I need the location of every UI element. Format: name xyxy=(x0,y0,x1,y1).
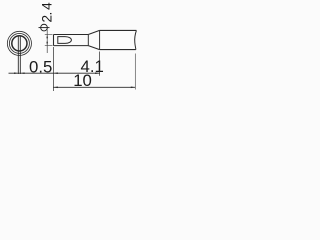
svg-text:10: 10 xyxy=(73,71,92,90)
arrow 10 right xyxy=(131,87,136,89)
arrow 4.1 left xyxy=(53,72,58,74)
side view barrel bottom line xyxy=(100,49,136,51)
side view barrel top line xyxy=(100,29,137,31)
phi 2.4 extension tick top xyxy=(45,34,53,36)
extension line barrel end xyxy=(134,54,136,90)
side view cone/barrel junction xyxy=(99,30,101,49)
side view break line at right xyxy=(135,30,137,49)
svg-text:.: . xyxy=(40,12,55,16)
arrow 10 left xyxy=(53,87,58,89)
tip second circle xyxy=(9,33,29,53)
side view tip edge xyxy=(53,35,55,46)
chisel slot left edge / extension line xyxy=(17,36,19,74)
dimension line 10 xyxy=(53,86,135,88)
side view junction line xyxy=(87,35,89,46)
side view cone top xyxy=(88,30,99,34)
arrow phi2.4 top xyxy=(46,35,48,39)
side view bottom line xyxy=(54,45,89,47)
tip outer circle (front view barrel) xyxy=(7,31,31,55)
side view top line xyxy=(54,34,89,36)
arrow phi2.4 bottom xyxy=(46,42,48,46)
side view cone bottom xyxy=(88,46,99,50)
arrow 0.5 right xyxy=(20,72,24,74)
svg-text:0.5: 0.5 xyxy=(29,58,52,77)
extension line left (tip) xyxy=(52,47,54,91)
phi 2.4 dimension line xyxy=(46,30,48,54)
dimension line 0.5 + 4.1 (continuous) xyxy=(9,72,100,74)
chisel slot right edge / extension line xyxy=(19,36,21,74)
tip inner plated circle xyxy=(12,36,27,51)
svg-text:4: 4 xyxy=(40,2,55,10)
extension line cone end xyxy=(99,52,101,76)
label phi symbol of phi2.4 xyxy=(39,24,50,31)
arrow 0.5 left xyxy=(14,72,18,74)
bevel bullet shape xyxy=(58,37,72,44)
phi 2.4 extension tick bottom xyxy=(45,45,53,47)
arrow 4.1 right xyxy=(95,72,100,74)
